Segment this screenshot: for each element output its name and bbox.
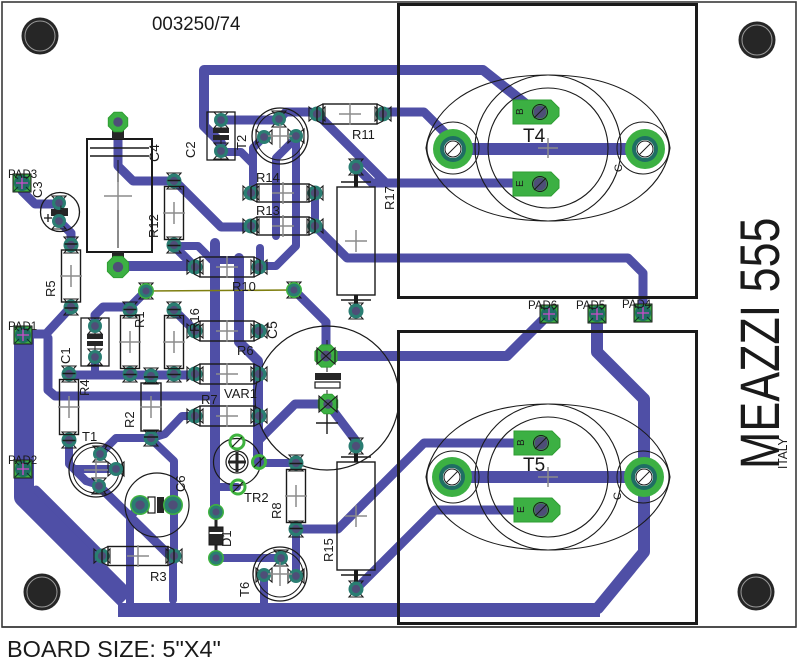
resistor VAR1: [187, 363, 267, 401]
heatsink region box T4 border redraw: [399, 5, 697, 298]
pad C4 top: [108, 112, 127, 131]
diode D1: [208, 504, 234, 566]
resistor R12: [146, 173, 185, 253]
svg-text:C2: C2: [183, 141, 198, 158]
wire T6 right to R8 bottom: [292, 529, 300, 575]
wire R4 bottom to T1: [69, 441, 99, 485]
heatsink region box T5 border redraw: [399, 332, 697, 624]
resistor R7: [187, 392, 267, 427]
pad T4 base: [513, 100, 559, 124]
wire T2 collector down to R10 right: [260, 136, 296, 266]
svg-text:PAD5: PAD5: [576, 300, 605, 312]
svg-text:R11: R11: [352, 127, 375, 142]
wire R5 PAD1 junction rail: [48, 338, 213, 396]
pad T4 mount left: [433, 129, 473, 169]
svg-text:R1: R1: [132, 311, 147, 328]
wire R10 right stub up: [256, 248, 264, 267]
svg-text:R16: R16: [187, 308, 202, 332]
pad T4 emitter: [513, 172, 559, 196]
wire olive pad to R1 top to C1 top: [95, 291, 146, 326]
transistor T2: [234, 108, 308, 164]
wire T1 base bar: [74, 465, 116, 473]
svg-text:B: B: [515, 108, 526, 115]
node PAD2: [8, 455, 37, 478]
wire ground rail bottom: [118, 603, 600, 617]
wire C4 pad to R10 left: [118, 261, 195, 271]
wire C1 bottom stub: [91, 357, 99, 374]
svg-text:R17: R17: [382, 186, 397, 210]
trimmer TR2: [214, 435, 269, 505]
wire node pad to C5 plus: [294, 290, 326, 356]
pad T5 base: [514, 431, 560, 455]
wire PAD3 to C3: [22, 184, 59, 204]
svg-text:R8: R8: [269, 502, 284, 519]
wire T2 emitter down: [253, 137, 264, 170]
svg-text:R10: R10: [232, 279, 256, 294]
pad C5 minus: [318, 394, 337, 413]
wire C5 minus left jog to TR2: [259, 404, 328, 440]
wire center vertical A to D1: [210, 243, 220, 512]
svg-text:E: E: [515, 180, 526, 187]
transistor T5 package: [426, 404, 670, 550]
capacitor C2: [183, 112, 235, 160]
svg-text:T5: T5: [523, 455, 545, 476]
svg-text:VAR1: VAR1: [224, 386, 257, 401]
svg-text:003250/74: 003250/74: [152, 14, 241, 35]
pad T5 mount left: [432, 457, 472, 497]
wire R8 bottom to T5 base: [296, 443, 538, 529]
capacitor C6 (electrolytic): [125, 473, 189, 537]
wire R3 left to supply trace: [36, 490, 101, 555]
resistor R5: [43, 237, 82, 315]
resistor R11: [309, 103, 391, 142]
capacitor C3 (electrolytic): [30, 181, 80, 231]
svg-text:PAD6: PAD6: [528, 300, 557, 312]
wire net tie (thin) olive: [146, 290, 293, 291]
resistor R10: [187, 256, 267, 294]
node PAD1: [8, 321, 37, 344]
resistor R17: [337, 159, 397, 319]
resistor R8: [269, 455, 307, 537]
wire T1 emitter to R3 right: [99, 486, 168, 554]
svg-text:R2: R2: [122, 411, 137, 428]
wire R16 top to R6 left: [174, 310, 195, 331]
node PAD5: [576, 300, 606, 323]
heatsink region box T5: [399, 332, 697, 624]
wire R5 bottom to PAD1: [23, 308, 70, 334]
resistor R4: [58, 366, 92, 448]
mounting hole bottom-left: [24, 574, 61, 611]
wire R15 bottom to T5 emitter: [356, 510, 538, 589]
wire PAD1 PAD2 supply trace: [24, 337, 126, 599]
svg-text:R12: R12: [146, 214, 161, 238]
wire R2 bottom to R3 right: [151, 439, 174, 555]
svg-text:C1: C1: [58, 347, 73, 364]
resistor R3: [94, 545, 182, 584]
node PAD6: [528, 300, 558, 323]
wire R12 bottom to R10 left: [174, 246, 195, 267]
wire R3 right down to rail: [169, 557, 177, 600]
mounting hole top-left: [22, 18, 59, 55]
svg-text:R13: R13: [256, 203, 280, 218]
capacitor C5 (electrolytic, large): [255, 321, 399, 470]
node PAD3: [8, 169, 37, 192]
board outline bottom redraw: [2, 626, 796, 628]
svg-text:T6: T6: [237, 582, 252, 597]
svg-text:R6: R6: [237, 343, 254, 358]
transistor T6: [237, 547, 307, 601]
pad C4 bottom: [107, 256, 128, 277]
resistor R6: [187, 320, 267, 358]
svg-text:C4: C4: [146, 144, 162, 162]
svg-text:B: B: [516, 439, 527, 446]
svg-text:E: E: [516, 506, 527, 513]
resistor R1: [119, 302, 147, 382]
heatsink region box T4: [399, 5, 697, 298]
svg-text:R5: R5: [43, 280, 58, 297]
svg-text:D1: D1: [219, 530, 234, 547]
wire TR2 bottom link: [216, 483, 237, 491]
svg-text:PAD2: PAD2: [8, 455, 37, 467]
wire resistor row bus y375: [69, 371, 195, 380]
svg-text:MEAZZI 555: MEAZZI 555: [728, 218, 791, 469]
svg-text:C: C: [612, 492, 624, 500]
wire R17 top to T4 emitter: [356, 167, 536, 183]
wire T4 mount bar: [453, 143, 645, 155]
resistor R15: [321, 438, 375, 597]
wire T1 top to R2 bottom: [100, 438, 151, 454]
pad T4 mount right: [625, 129, 665, 169]
capacitor C1: [58, 318, 109, 366]
svg-text:R4: R4: [77, 379, 92, 396]
wire R11 right to T4 mount left: [383, 112, 453, 149]
wire R13 right to PAD4: [315, 226, 643, 313]
capacitor C4 (electrolytic, large): [87, 128, 162, 258]
wire TR2 right to R8 top: [259, 459, 296, 467]
svg-text:R14: R14: [256, 170, 280, 185]
svg-text:ITALY: ITALY: [776, 437, 791, 469]
wire C2 to T2 base: [221, 116, 279, 125]
wire top rail elbow down to C2: [204, 71, 221, 150]
svg-text:C3: C3: [30, 181, 45, 198]
wire C6 left down: [130, 506, 140, 606]
wire VCC rail top to T4 base: [204, 70, 536, 112]
transistor T4 package: [426, 75, 670, 221]
svg-text:BOARD SIZE: 5"X4": BOARD SIZE: 5"X4": [7, 636, 221, 662]
svg-text:PAD4: PAD4: [622, 299, 652, 311]
svg-text:T2: T2: [234, 135, 249, 150]
wire R12 top diagonal to R13 left: [175, 181, 251, 227]
svg-text:PAD1: PAD1: [8, 321, 37, 333]
node pad olive-line left: [138, 283, 154, 299]
svg-text:C: C: [613, 164, 625, 172]
wire C2 bottom jog to R14 left: [221, 152, 253, 193]
svg-text:TR2: TR2: [244, 490, 269, 505]
svg-text:R3: R3: [150, 569, 167, 584]
wire C3 to R5 top: [59, 221, 71, 245]
svg-text:R7: R7: [201, 392, 218, 407]
resistor R14: [243, 170, 323, 204]
transistor T1: [69, 429, 124, 497]
wire T2 to R11 left: [279, 112, 317, 119]
wire C5 minus to R15 top: [328, 404, 356, 446]
node pad olive-line right: [286, 282, 302, 298]
pad C5 plus: [315, 345, 337, 367]
wire center vertical B to TR2 right: [239, 258, 258, 463]
mounting hole top-right: [739, 22, 776, 59]
pad T5 mount right: [624, 457, 664, 497]
mounting hole bottom-right: [738, 574, 775, 611]
svg-text:T4: T4: [523, 126, 546, 147]
wire R12 bottom jog to center vertical: [174, 246, 239, 260]
wire C4 top to R12 top: [118, 122, 175, 181]
wire T5 mount bar: [452, 471, 644, 483]
svg-text:T: T: [59, 205, 71, 212]
resistor R2: [122, 368, 162, 446]
svg-text:R15: R15: [321, 538, 336, 562]
pad T5 emitter: [514, 498, 560, 522]
resistor R13: [243, 203, 323, 237]
wire R14 right to R13 right: [311, 193, 319, 226]
wire R11 left diagonal to T4 emitter line: [317, 114, 386, 183]
wire C5 plus to PAD6: [326, 314, 549, 356]
node PAD4: [622, 299, 652, 322]
wire D1 to T6 top: [216, 554, 281, 562]
wire branch vertical x274: [276, 138, 296, 236]
svg-text:T1: T1: [82, 429, 97, 444]
wire T6 left down to ground rail: [260, 575, 268, 603]
svg-text:PAD3: PAD3: [8, 169, 37, 181]
wire PAD5 to T5 mount right then ground rail: [597, 315, 644, 608]
resistor R16: [163, 302, 202, 382]
wire R7 left to R2 bottom: [152, 416, 195, 438]
svg-text:C6: C6: [173, 475, 188, 492]
